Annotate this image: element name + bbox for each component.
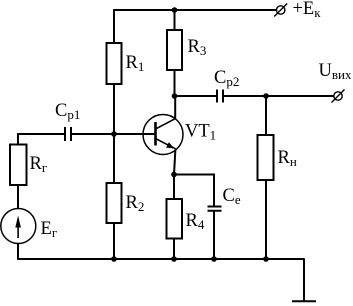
resistor R1 xyxy=(107,43,122,84)
wire R3 bottom to collector node xyxy=(174,70,176,96)
wire emitter to emitter node xyxy=(174,150,175,175)
svg-text:Rг: Rг xyxy=(30,154,48,175)
wire Cp1 to base node xyxy=(72,133,114,135)
wire output node to Rn xyxy=(265,96,267,135)
ground xyxy=(292,300,316,302)
node top rail junction xyxy=(172,7,178,13)
svg-text:R2: R2 xyxy=(126,193,145,214)
resistor R2 xyxy=(107,183,122,223)
transistor VT1 xyxy=(143,115,183,155)
resistor Rn xyxy=(258,135,274,180)
wire Rn bottom to ground rail xyxy=(265,180,267,259)
svg-text:Rн: Rн xyxy=(278,148,297,169)
source Eg xyxy=(1,209,36,244)
node R4-ground junction xyxy=(171,256,177,262)
wire R4 bottom to ground rail xyxy=(173,239,175,260)
svg-text:R4: R4 xyxy=(186,211,205,232)
capacitor Cp2 xyxy=(217,90,223,103)
terminal output xyxy=(332,90,345,103)
wire Ce to ground rail xyxy=(213,211,215,259)
wire source top (corner to Rg) xyxy=(17,133,19,144)
node emitter junction xyxy=(171,172,177,178)
node R2-ground junction xyxy=(111,256,117,262)
wire collector into transistor xyxy=(174,96,176,119)
svg-text:+Eк: +Eк xyxy=(293,0,322,20)
wire Eg to ground rail xyxy=(17,244,19,260)
node output junction xyxy=(263,93,269,99)
wire emitter node to R4 xyxy=(173,175,175,200)
wire Cp2 to output node xyxy=(224,95,266,97)
wire ground drop xyxy=(303,258,305,301)
svg-text:Cе: Cе xyxy=(223,186,241,207)
svg-text:Eг: Eг xyxy=(41,219,58,240)
resistor Rg xyxy=(10,145,27,186)
resistor R4 xyxy=(167,199,183,239)
node Rn-ground junction xyxy=(263,256,269,262)
wire rail to R3 xyxy=(174,10,176,30)
wire bottom ground rail xyxy=(17,258,304,260)
capacitor Cp1 xyxy=(65,127,71,141)
node collector junction xyxy=(172,93,178,99)
node base junction xyxy=(111,131,117,137)
svg-text:Cр2: Cр2 xyxy=(214,68,239,89)
wire base node to transistor base xyxy=(114,133,155,135)
wire output node to terminal xyxy=(266,95,334,97)
svg-text:VT1: VT1 xyxy=(185,122,216,143)
svg-text:Cр1: Cр1 xyxy=(55,101,80,122)
wire top supply rail xyxy=(114,9,276,11)
wire R1 top (rail to R1) xyxy=(113,9,115,43)
resistor R3 xyxy=(167,30,182,70)
svg-text:R3: R3 xyxy=(188,37,207,58)
svg-text:R1: R1 xyxy=(126,53,145,74)
wire collector node to Cp2 xyxy=(175,95,217,97)
wire base node to R2 xyxy=(113,134,115,183)
wire R1 bottom to base node xyxy=(113,84,115,134)
wire Rg to Eg xyxy=(17,185,19,209)
wire input left segment xyxy=(18,133,65,135)
wire emitter node to Ce xyxy=(174,175,214,207)
terminal +Ek xyxy=(274,4,287,17)
svg-text:Uвих: Uвих xyxy=(319,61,352,82)
capacitor Ce xyxy=(208,207,222,211)
node Ce-ground junction xyxy=(211,256,217,262)
wire R2 bottom to ground rail xyxy=(113,223,115,259)
